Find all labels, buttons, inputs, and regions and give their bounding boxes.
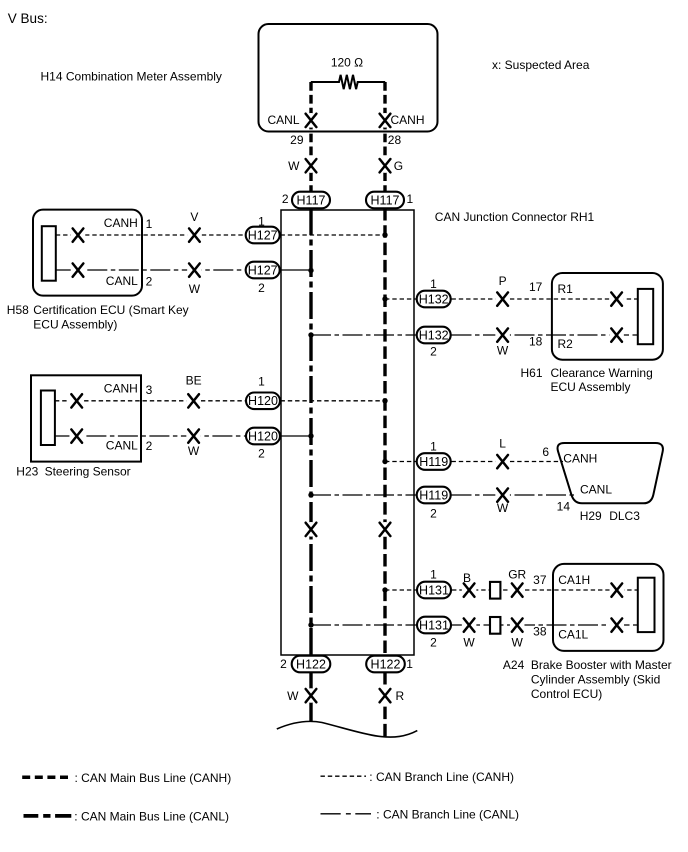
svg-text:H119: H119 [419, 455, 448, 469]
svg-text:BE: BE [186, 374, 202, 388]
svg-text:V: V [190, 210, 198, 224]
svg-text:H127: H127 [248, 228, 278, 242]
svg-text:A24: A24 [503, 658, 525, 672]
svg-text:CANL: CANL [106, 438, 138, 452]
svg-text:6: 6 [542, 445, 549, 459]
svg-text:R: R [396, 689, 405, 703]
svg-text:1: 1 [407, 192, 414, 206]
svg-text:L: L [499, 437, 506, 451]
svg-text:W: W [188, 444, 200, 458]
svg-text:W: W [287, 689, 299, 703]
svg-text:H132: H132 [419, 292, 449, 306]
svg-text:1: 1 [146, 217, 153, 231]
svg-text:H122: H122 [296, 657, 326, 671]
svg-text:P: P [499, 274, 507, 288]
svg-text:2: 2 [430, 507, 437, 521]
svg-text:CAN Junction Connector RH1: CAN Junction Connector RH1 [435, 210, 595, 224]
svg-text:17: 17 [529, 280, 543, 294]
svg-text:H131: H131 [419, 583, 449, 597]
svg-text:H14 Combination Meter Assembly: H14 Combination Meter Assembly [41, 70, 222, 84]
svg-text:CANH: CANH [104, 382, 138, 396]
svg-text:2: 2 [258, 447, 265, 461]
svg-text:W: W [189, 282, 201, 296]
svg-text:37: 37 [533, 573, 547, 587]
svg-text:28: 28 [388, 133, 402, 147]
svg-text:R2: R2 [558, 337, 574, 351]
svg-text:CA1H: CA1H [558, 573, 590, 587]
svg-text:Certification ECU (Smart Key: Certification ECU (Smart Key [33, 303, 188, 317]
svg-text:H119: H119 [419, 488, 448, 502]
svg-text:H117: H117 [297, 193, 326, 207]
svg-text:CANL: CANL [580, 483, 612, 497]
svg-text:H127: H127 [248, 263, 278, 277]
svg-text:2: 2 [146, 275, 153, 289]
svg-text:1: 1 [430, 277, 437, 291]
svg-text:H117: H117 [371, 193, 400, 207]
svg-text:W: W [497, 344, 509, 358]
svg-text:2: 2 [258, 281, 265, 295]
svg-text:: CAN Branch Line (CANL): : CAN Branch Line (CANL) [376, 808, 519, 822]
svg-text:1: 1 [406, 657, 413, 671]
svg-text:Cylinder Assembly (Skid: Cylinder Assembly (Skid [531, 673, 660, 687]
svg-text:H120: H120 [248, 429, 278, 443]
svg-text:14: 14 [557, 500, 571, 514]
svg-text:3: 3 [146, 383, 153, 397]
svg-text:29: 29 [290, 133, 304, 147]
svg-text:2: 2 [146, 439, 153, 453]
svg-text:120 Ω: 120 Ω [331, 56, 363, 70]
svg-text:: CAN Main Bus Line (CANL): : CAN Main Bus Line (CANL) [74, 810, 229, 824]
svg-text:W: W [497, 501, 509, 515]
svg-text:R1: R1 [558, 282, 574, 296]
svg-text:H131: H131 [419, 618, 449, 632]
svg-text:V Bus:: V Bus: [8, 11, 48, 26]
svg-text:CANL: CANL [267, 113, 299, 127]
svg-text:2: 2 [430, 345, 437, 359]
svg-text:1: 1 [430, 440, 437, 454]
svg-text:H132: H132 [419, 328, 449, 342]
svg-text:ECU Assembly): ECU Assembly) [33, 317, 117, 331]
svg-text:1: 1 [258, 375, 265, 389]
svg-text:ECU Assembly: ECU Assembly [551, 380, 631, 394]
svg-text:G: G [394, 159, 403, 173]
svg-text:W: W [463, 636, 475, 650]
svg-text:H29: H29 [580, 509, 602, 523]
svg-text:2: 2 [282, 192, 289, 206]
svg-text:W: W [512, 636, 524, 650]
svg-text:Clearance Warning: Clearance Warning [551, 366, 653, 380]
svg-text:: CAN Main Bus Line (CANH): : CAN Main Bus Line (CANH) [75, 771, 232, 785]
svg-text:Brake Booster with Master: Brake Booster with Master [531, 658, 672, 672]
svg-text:H58: H58 [7, 303, 29, 317]
svg-text:W: W [288, 159, 300, 173]
svg-text:2: 2 [430, 636, 437, 650]
svg-text:H61: H61 [521, 366, 543, 380]
svg-text:CANH: CANH [391, 113, 425, 127]
svg-text:Control ECU): Control ECU) [531, 687, 602, 701]
svg-text:1: 1 [430, 568, 437, 582]
svg-text:18: 18 [529, 335, 543, 349]
svg-text:38: 38 [533, 625, 547, 639]
svg-text:2: 2 [280, 657, 287, 671]
svg-text:Steering Sensor: Steering Sensor [45, 465, 131, 479]
svg-text:CA1L: CA1L [558, 627, 588, 641]
svg-text:B: B [463, 571, 471, 585]
svg-text:H122: H122 [371, 657, 401, 671]
svg-text:DLC3: DLC3 [609, 509, 640, 523]
svg-text:CANH: CANH [563, 452, 597, 466]
svg-text:: CAN Branch Line (CANH): : CAN Branch Line (CANH) [369, 770, 514, 784]
svg-text:H120: H120 [248, 394, 278, 408]
svg-text:H23: H23 [16, 465, 38, 479]
svg-text:CANH: CANH [104, 216, 138, 230]
svg-text:GR: GR [508, 568, 526, 582]
svg-text:CANL: CANL [106, 274, 138, 288]
svg-text:x: Suspected Area: x: Suspected Area [492, 58, 590, 72]
